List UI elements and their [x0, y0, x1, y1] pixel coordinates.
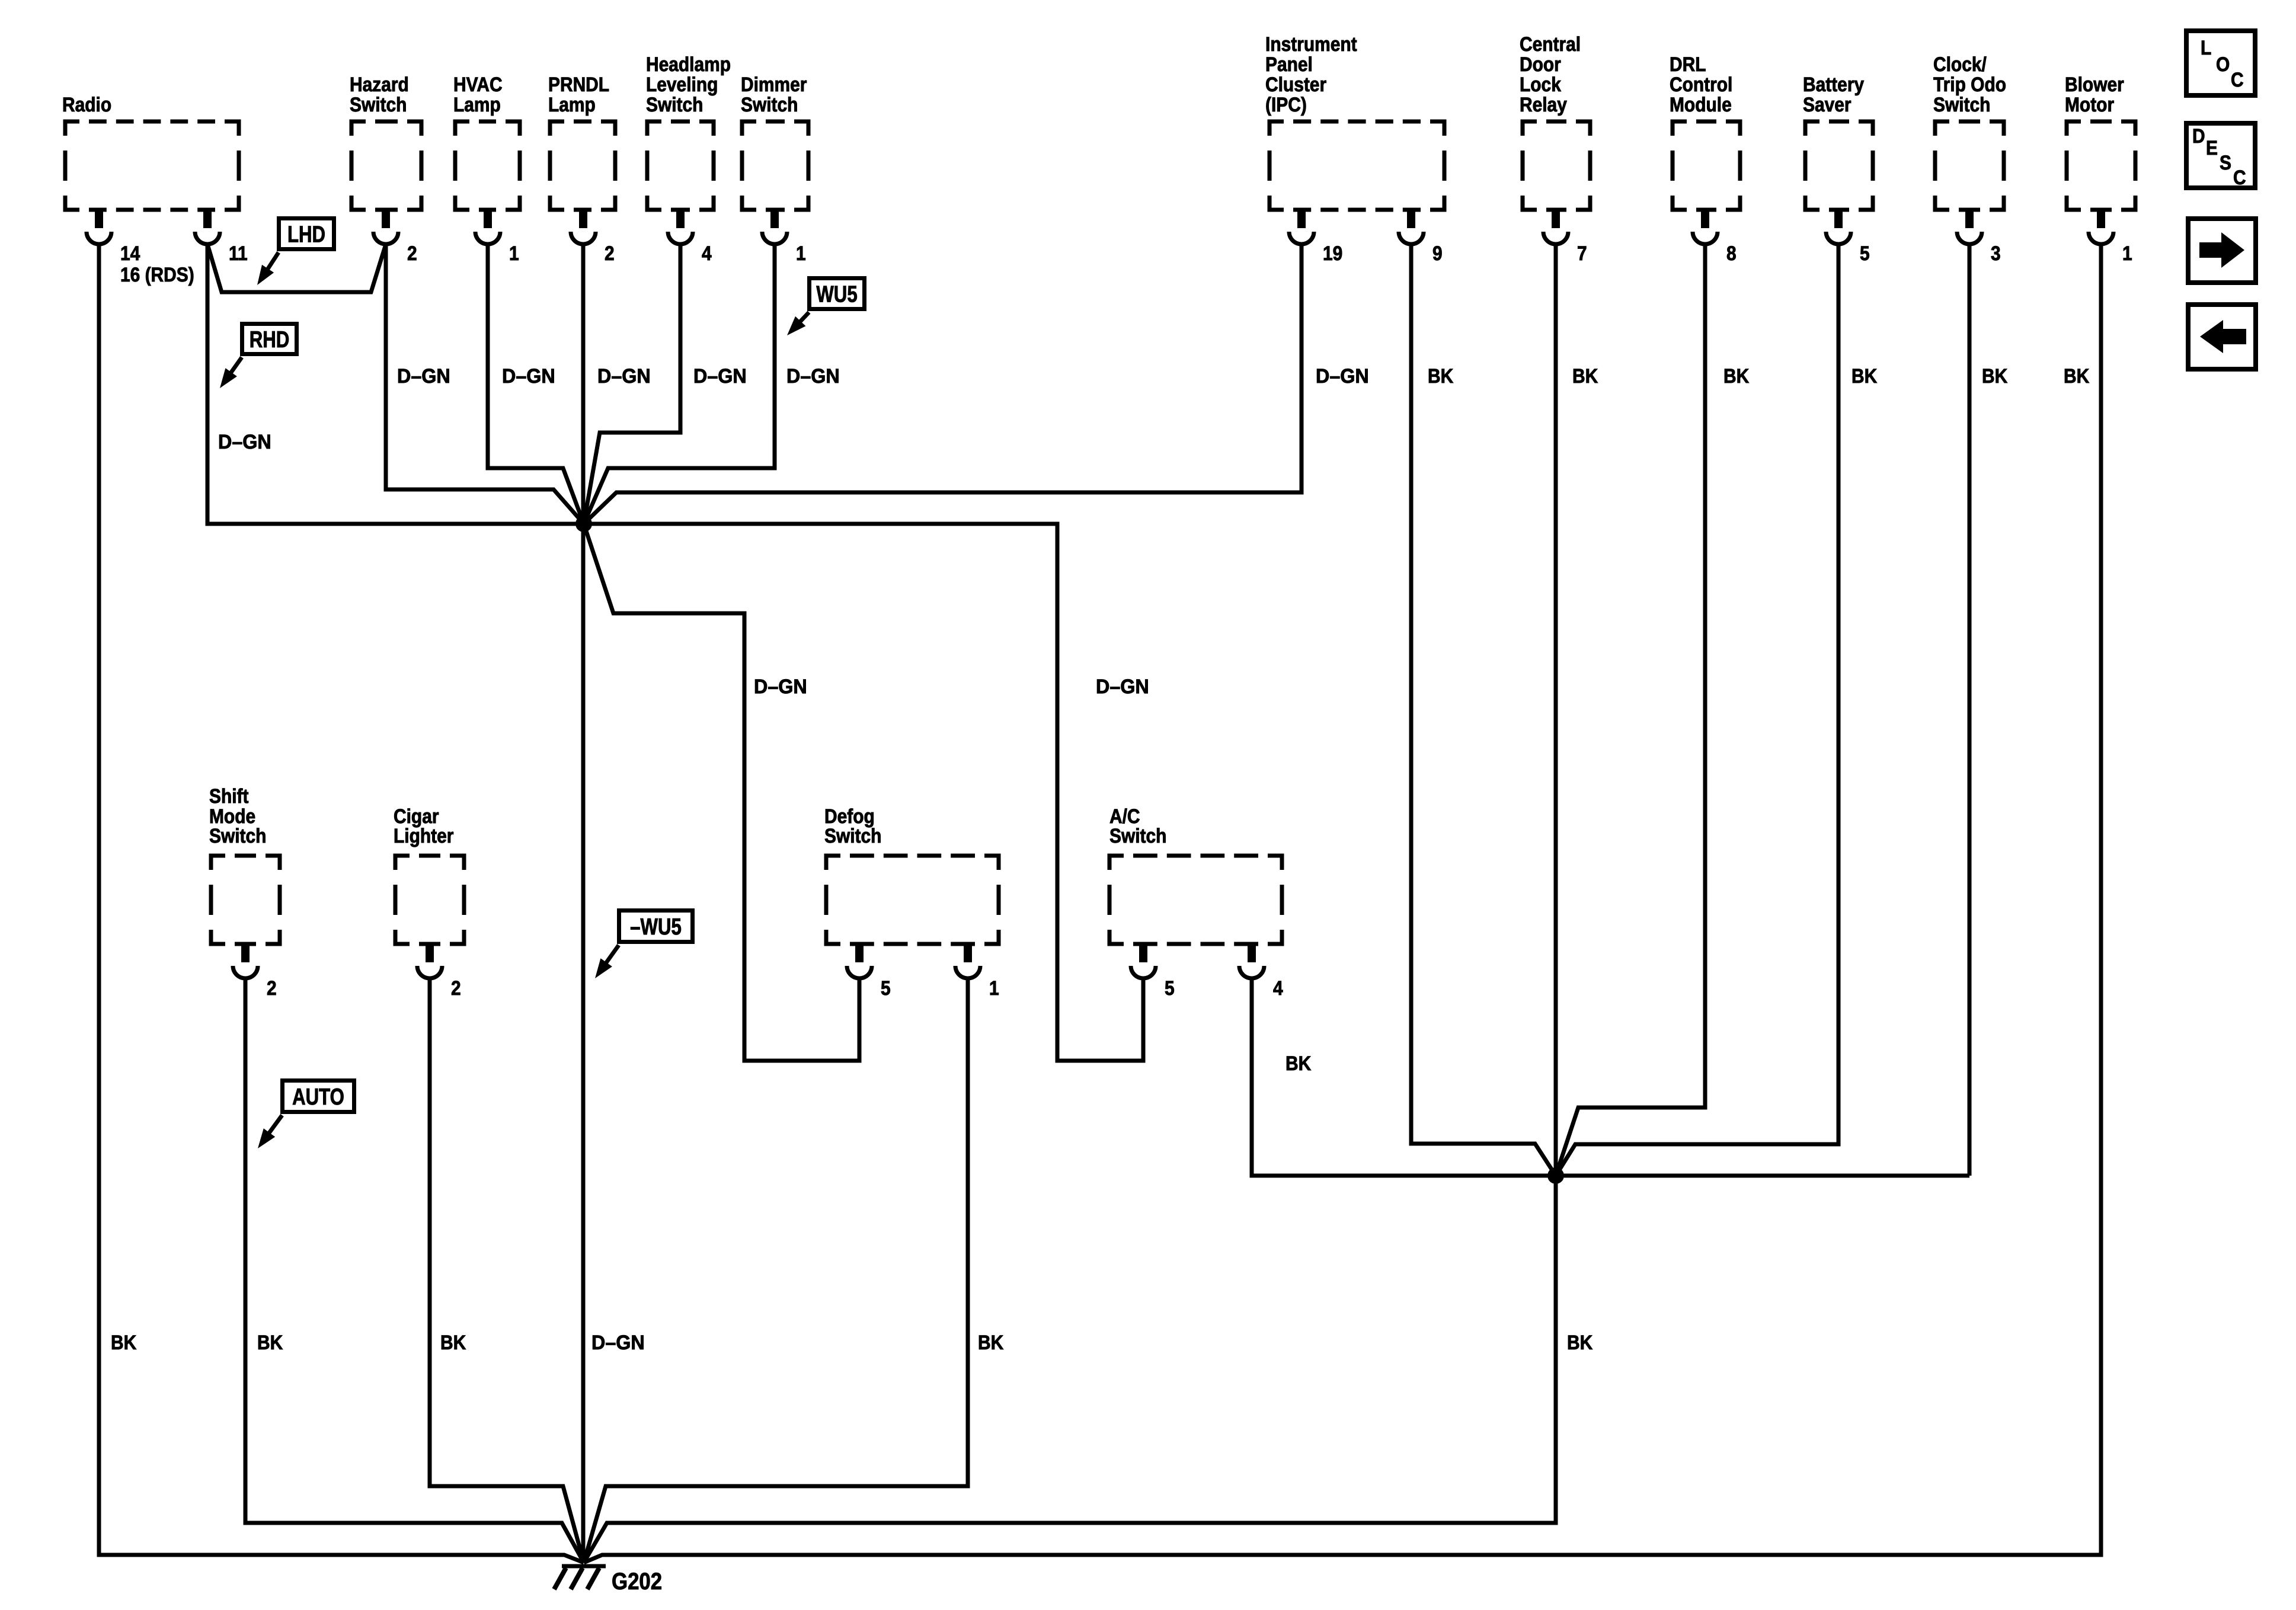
svg-text:(IPC): (IPC) [1265, 94, 1307, 116]
wire PRNDL-2 main D-GN vertical through J1 to ground G202 [581, 244, 586, 1563]
wire defog-1 down to ground G202 [584, 978, 968, 1563]
wire central-door-lock-7 through J2 to ground G202 [584, 244, 1556, 1563]
svg-text:14: 14 [120, 242, 140, 265]
component Clock Trip-Odo Switch (dashed box) [1935, 121, 2004, 210]
svg-text:C: C [2231, 69, 2244, 91]
pin 5 Battery Saver [1834, 209, 1843, 228]
svg-text:Blower: Blower [2065, 73, 2124, 96]
svg-text:BK: BK [1567, 1331, 1593, 1354]
component Hazard Switch (dashed box) [351, 121, 421, 210]
pin 8 DRL Control Module [1701, 209, 1709, 228]
svg-text:Cluster: Cluster [1265, 73, 1326, 96]
svg-text:D–GN: D–GN [218, 431, 271, 453]
svg-text:1: 1 [796, 242, 806, 265]
pin 9 IPC [1407, 209, 1415, 228]
wire clock-3 down to junction J2 horizontal [1968, 244, 1972, 1176]
svg-text:5: 5 [1860, 242, 1870, 265]
callout AUTO with arrow [283, 1081, 354, 1112]
component Instrument Panel Cluster IPC (dashed box) [1269, 121, 1444, 210]
component Central Door Lock Relay (dashed box) [1523, 121, 1590, 210]
svg-text:Relay: Relay [1520, 94, 1567, 116]
pin 11 Radio [203, 209, 212, 228]
svg-text:D–GN: D–GN [591, 1331, 645, 1354]
wire cigar-2 down to ground G202 [430, 978, 584, 1563]
svg-text:S: S [2220, 152, 2231, 174]
svg-text:L: L [2201, 37, 2211, 59]
svg-text:Instrument: Instrument [1265, 33, 1357, 56]
svg-text:2: 2 [451, 977, 461, 1000]
svg-text:Saver: Saver [1803, 94, 1851, 116]
svg-text:DRL: DRL [1670, 53, 1706, 76]
svg-text:Radio: Radio [62, 94, 111, 116]
svg-text:Control: Control [1670, 73, 1732, 96]
callout WU5 with arrow [810, 279, 865, 309]
component Blower Motor (dashed box) [2067, 121, 2135, 210]
wire hazard-2 down to junction J1 [386, 244, 584, 524]
svg-text:D–GN: D–GN [1096, 676, 1149, 698]
svg-text:Panel: Panel [1265, 53, 1313, 76]
component Defog Switch (dashed box) [826, 856, 999, 944]
callout LHD with arrow [279, 219, 334, 249]
svg-text:Dimmer: Dimmer [741, 73, 807, 96]
pin 4 A/C Switch [1248, 943, 1256, 962]
ground G202 symbol [562, 1564, 606, 1569]
svg-text:BK: BK [1428, 365, 1454, 388]
svg-text:16 (RDS): 16 (RDS) [120, 264, 194, 286]
svg-text:Switch: Switch [1933, 94, 1990, 116]
junction J2 (BK splice) [1547, 1167, 1564, 1184]
junction J1 (D-GN splice) [575, 516, 592, 532]
component Shift Mode Switch (dashed box) [211, 856, 280, 944]
svg-text:5: 5 [881, 977, 891, 1000]
legend box DESC [2186, 123, 2255, 188]
wire radio-11 RHD down to junction J1 and on to A/C pin 5 [207, 244, 1143, 1061]
pin 1 Defog Switch [964, 943, 972, 962]
pin 5 A/C Switch [1139, 943, 1147, 962]
legend box right-arrow [2188, 219, 2256, 283]
pin 3 Clock Trip-Odo Switch [1965, 209, 1974, 228]
svg-text:3: 3 [1991, 242, 2001, 265]
svg-text:O: O [2216, 53, 2230, 76]
wire radio-14 down to ground G202 [99, 244, 584, 1563]
svg-text:1: 1 [989, 977, 999, 1000]
legend box LOC [2186, 31, 2255, 95]
pin 1 HVAC Lamp [484, 209, 492, 228]
svg-text:PRNDL: PRNDL [548, 73, 609, 96]
svg-text:D–GN: D–GN [754, 676, 807, 698]
svg-text:BK: BK [1723, 365, 1750, 388]
pin 1 Dimmer Switch [770, 209, 779, 228]
pin 14 Radio [95, 209, 103, 228]
pin 2 Cigar Lighter [426, 943, 434, 962]
component Headlamp Leveling Switch (dashed box) [647, 121, 714, 210]
callout -WU5 with arrow [619, 911, 693, 942]
component HVAC Lamp (dashed box) [455, 121, 520, 210]
svg-text:Clock/: Clock/ [1933, 53, 1987, 76]
component PRNDL Lamp (dashed box) [550, 121, 615, 210]
callout RHD with arrow [242, 324, 297, 354]
wire shift-mode-2 down to ground G202 [245, 978, 584, 1563]
pin 4 Headlamp Leveling Switch [676, 209, 685, 228]
svg-text:1: 1 [509, 242, 519, 265]
wire IPC-9 to junction J2 [1411, 244, 1556, 1176]
wire junction J1 to defog-5 [584, 524, 859, 1061]
wire HVAC-1 down to junction J1 [488, 244, 584, 524]
svg-text:D–GN: D–GN [786, 365, 840, 388]
svg-text:2: 2 [407, 242, 417, 265]
svg-text:WU5: WU5 [816, 282, 857, 308]
svg-text:Door: Door [1520, 53, 1561, 76]
component A/C Switch (dashed box) [1109, 856, 1282, 944]
svg-text:D–GN: D–GN [502, 365, 555, 388]
svg-text:BK: BK [257, 1331, 283, 1354]
pin 19 IPC [1297, 209, 1306, 228]
wire headlamp-leveling-4 to junction J1 [584, 244, 680, 524]
svg-text:4: 4 [1273, 977, 1283, 1000]
component Radio (dashed box) [65, 121, 239, 210]
svg-text:HVAC: HVAC [453, 73, 503, 96]
wire radio-11 to hazard-2 (LHD link) [207, 244, 386, 292]
svg-text:C: C [2233, 167, 2246, 189]
svg-text:11: 11 [229, 242, 248, 265]
svg-text:Lighter: Lighter [394, 825, 453, 847]
pin 2 PRNDL Lamp [579, 209, 587, 228]
svg-text:BK: BK [978, 1331, 1004, 1354]
svg-text:Lock: Lock [1520, 73, 1561, 96]
svg-text:5: 5 [1165, 977, 1175, 1000]
svg-text:4: 4 [702, 242, 712, 265]
svg-text:Motor: Motor [2065, 94, 2114, 116]
svg-text:Battery: Battery [1803, 73, 1864, 96]
svg-text:Switch: Switch [1109, 825, 1166, 847]
svg-text:Central: Central [1520, 33, 1581, 56]
component DRL Control Module (dashed box) [1673, 121, 1740, 210]
svg-text:D–GN: D–GN [1316, 365, 1369, 388]
svg-text:19: 19 [1323, 242, 1342, 265]
svg-text:1: 1 [2122, 242, 2132, 265]
svg-text:BK: BK [440, 1331, 466, 1354]
svg-text:AUTO: AUTO [292, 1084, 344, 1110]
svg-text:Switch: Switch [350, 94, 407, 116]
svg-text:BK: BK [1851, 365, 1878, 388]
svg-text:Switch: Switch [646, 94, 703, 116]
wire blower-1 down to ground G202 [584, 244, 2101, 1563]
svg-text:BK: BK [1982, 365, 2008, 388]
svg-text:Switch: Switch [209, 825, 266, 847]
svg-text:–WU5: –WU5 [630, 914, 682, 940]
svg-text:BK: BK [1572, 365, 1598, 388]
svg-text:D–GN: D–GN [397, 365, 450, 388]
svg-text:7: 7 [1577, 242, 1587, 265]
svg-text:G202: G202 [612, 1569, 662, 1595]
svg-text:D–GN: D–GN [693, 365, 747, 388]
svg-text:Headlamp: Headlamp [646, 53, 731, 76]
wire DRL-8 to junction J2 [1556, 244, 1705, 1176]
wire IPC-19 to junction J1 [584, 244, 1302, 524]
pin 2 Hazard Switch [382, 209, 390, 228]
svg-text:Leveling: Leveling [646, 73, 718, 96]
svg-text:D: D [2192, 125, 2205, 148]
wire battery-saver-5 to junction J2 [1556, 244, 1838, 1176]
svg-text:Hazard: Hazard [350, 73, 409, 96]
svg-text:8: 8 [1726, 242, 1737, 265]
svg-text:BK: BK [111, 1331, 137, 1354]
svg-text:BK: BK [1285, 1052, 1312, 1075]
pin 2 Shift Mode Switch [241, 943, 250, 962]
svg-text:Switch: Switch [741, 94, 798, 116]
wire dimmer-1 to junction J1 [584, 244, 775, 524]
svg-text:Lamp: Lamp [548, 94, 596, 116]
svg-text:2: 2 [605, 242, 615, 265]
svg-text:Module: Module [1670, 94, 1732, 116]
svg-text:9: 9 [1432, 242, 1443, 265]
pin 1 Blower Motor [2097, 209, 2105, 228]
wire A/C-4 to junction J2 horizontal [1252, 978, 1969, 1176]
svg-text:BK: BK [2064, 365, 2090, 388]
svg-text:D–GN: D–GN [597, 365, 651, 388]
svg-text:Lamp: Lamp [453, 94, 501, 116]
svg-text:Shift: Shift [209, 785, 248, 808]
legend box left-arrow [2188, 305, 2256, 369]
svg-text:E: E [2206, 137, 2218, 159]
svg-text:2: 2 [267, 977, 277, 1000]
svg-text:Switch: Switch [824, 825, 881, 847]
svg-text:RHD: RHD [250, 327, 290, 353]
component Battery Saver (dashed box) [1805, 121, 1873, 210]
component Dimmer Switch (dashed box) [742, 121, 808, 210]
component Cigar Lighter (dashed box) [395, 856, 464, 944]
pin 7 Central Door Lock Relay [1552, 209, 1560, 228]
svg-text:Trip Odo: Trip Odo [1933, 73, 2006, 96]
pin 5 Defog Switch [855, 943, 864, 962]
svg-text:LHD: LHD [287, 222, 325, 248]
